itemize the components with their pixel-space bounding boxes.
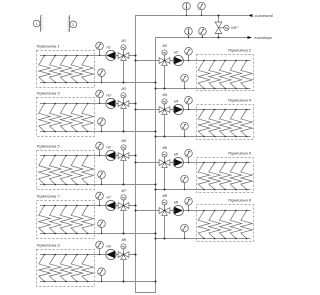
pump Н1	[106, 46, 116, 61]
heating loop coil zone 3.3	[60, 103, 72, 133]
wire valve М8 recirculation stem	[164, 215, 166, 238]
heating loop coil zone 2.2	[209, 60, 221, 90]
thermometer supply zone 1	[96, 42, 104, 56]
svg-text:Н9: Н9	[106, 245, 110, 249]
thermal zone 8 outline	[197, 205, 254, 242]
thermometer supply zone 2	[185, 48, 193, 62]
thermometer return zone 2	[181, 74, 189, 89]
heating loop coil zone 4.3	[220, 109, 232, 138]
pump Н8	[173, 201, 183, 216]
wire return branch zone 5	[40, 184, 156, 186]
thermometer supply zone 6	[185, 150, 193, 164]
heating loop coil zone 6.2	[209, 162, 221, 191]
wire valve М3 recirculation stem	[123, 108, 125, 131]
svg-text:М3: М3	[121, 87, 126, 91]
svg-text:М9: М9	[121, 238, 126, 242]
thermometer supply zone 7	[96, 192, 104, 206]
thermometer return zone 7	[98, 220, 106, 234]
heating loop coil zone 2.3	[220, 60, 232, 90]
heating loop coil zone 7.3	[60, 205, 72, 235]
wire supply branch zone 9	[40, 254, 136, 256]
arrow to boiler	[248, 36, 252, 39]
wire supply branch zone 2	[136, 60, 251, 62]
svg-text:Термозона 4: Термозона 4	[228, 98, 252, 103]
manometer on return main	[199, 28, 207, 39]
wire supply branch zone 6	[136, 162, 251, 164]
pump Н2	[173, 51, 183, 66]
svg-text:Н6: Н6	[174, 153, 178, 157]
thermal zone 5 outline	[37, 151, 95, 190]
heating loop coil zone 5.3	[60, 155, 72, 186]
svg-text:М7: М7	[121, 189, 126, 193]
valve М7 three-way	[118, 189, 129, 211]
wire supply main (riser 1, upper pipe to boiler)	[136, 16, 249, 293]
wire supply branch zone 8	[136, 210, 251, 212]
valve КЗР bypass	[215, 14, 238, 38]
arrow from boiler	[248, 14, 252, 17]
valve М1 three-way	[118, 39, 129, 61]
thermometer supply zone 9	[96, 241, 104, 255]
wire valve М9 recirculation stem	[123, 259, 125, 281]
heating loop coil zone 3.5	[82, 103, 94, 133]
wire return branch zone 4	[156, 136, 251, 138]
heating loop coil zone 8.2	[209, 210, 221, 240]
thermal zone 4 outline	[197, 105, 254, 140]
svg-text:Термозона 2: Термозона 2	[228, 48, 252, 53]
wire valve М6 recirculation stem	[164, 167, 166, 189]
svg-text:М2: М2	[162, 44, 167, 48]
valve М8 three-way	[159, 194, 170, 216]
thermometer supply zone 4	[185, 97, 193, 111]
wire supply branch zone 3	[40, 103, 136, 105]
heating loop coil zone 1.2	[50, 55, 62, 84]
wire return branch zone 8	[156, 238, 251, 240]
thermometer on return main	[185, 28, 193, 39]
heating loop coil zone 7.2	[50, 205, 62, 235]
svg-text:КЗР: КЗР	[231, 26, 238, 30]
wire valve М4 recirculation stem	[164, 114, 166, 136]
svg-text:Н8: Н8	[174, 201, 178, 205]
svg-text:М5: М5	[121, 139, 126, 143]
wall sensor 2	[68, 15, 77, 32]
svg-text:из котельной: из котельной	[254, 14, 273, 19]
heating loop coil zone 5.2	[50, 155, 62, 186]
heating loop coil zone 6.4	[230, 162, 242, 191]
node junctions zone 9	[122, 253, 156, 282]
heating loop coil zone 8.5	[241, 210, 253, 240]
heating loop coil zone 7.5	[82, 205, 94, 235]
svg-text:М4: М4	[162, 93, 167, 97]
heating loop coil zone 2.4	[230, 60, 242, 90]
heating loop coil zone 3.4	[71, 103, 83, 133]
thermometer on supply main	[183, 2, 191, 16]
thermometer return zone 9	[98, 268, 106, 282]
wire return branch zone 6	[156, 189, 251, 191]
wire valve М1 recirculation stem	[123, 60, 125, 82]
node junctions zone 4	[134, 108, 165, 137]
heating loop coil zone 4.5	[241, 109, 253, 138]
svg-text:Н7: Н7	[106, 196, 110, 200]
heating loop coil zone 9.2	[50, 254, 62, 283]
manometer on supply main	[198, 2, 206, 16]
heating loop coil zone 3.1	[39, 103, 51, 133]
wire return branch zone 3	[40, 131, 156, 133]
svg-text:Н5: Н5	[106, 146, 110, 150]
svg-text:Н1: Н1	[106, 46, 110, 50]
pump Н5	[106, 146, 116, 161]
heating loop coil zone 6.3	[220, 162, 232, 191]
svg-text:Термозона 5: Термозона 5	[36, 144, 60, 149]
svg-text:2: 2	[72, 23, 74, 27]
wire return branch zone 9	[40, 281, 156, 283]
thermometer return zone 6	[181, 175, 189, 190]
wire supply branch zone 1	[40, 55, 136, 57]
wire supply branch zone 7	[40, 205, 136, 207]
heating loop coil zone 2.1	[198, 60, 210, 90]
valve М5 three-way	[118, 139, 129, 161]
svg-text:Термозона 3: Термозона 3	[36, 91, 60, 96]
heating loop coil zone 3.2	[50, 103, 62, 133]
heating loop coil zone 9.5	[82, 254, 94, 283]
node junctions zone 1	[122, 54, 156, 83]
heating loop coil zone 4.4	[230, 109, 242, 138]
heating loop coil zone 7.4	[71, 205, 83, 235]
wire supply branch zone 4	[136, 109, 251, 111]
thermometer return zone 3	[98, 118, 106, 132]
heating loop coil zone 9.4	[71, 254, 83, 283]
pump Н6	[173, 153, 183, 168]
thermometer supply zone 3	[96, 90, 104, 104]
thermometer return zone 4	[181, 122, 189, 137]
thermometer supply zone 8	[185, 198, 193, 212]
heating loop coil zone 2.5	[241, 60, 253, 90]
svg-text:Н2: Н2	[174, 51, 178, 55]
wire return branch zone 2	[156, 88, 251, 90]
pump Н7	[106, 196, 116, 211]
pump Н3	[106, 94, 116, 109]
heating loop coil zone 8.3	[220, 210, 232, 240]
svg-text:М1: М1	[121, 39, 126, 43]
heating loop coil zone 9.1	[39, 254, 51, 283]
heating loop coil zone 4.1	[198, 109, 210, 138]
wire return branch zone 1	[40, 82, 156, 84]
thermometer return zone 5	[98, 171, 106, 185]
heating loop coil zone 1.1	[39, 55, 51, 84]
thermal zone 1 outline	[37, 51, 95, 88]
node junctions zone 5	[122, 154, 156, 185]
node junctions zone 6	[134, 161, 165, 190]
pump Н9	[106, 245, 116, 260]
heating loop coil zone 7.1	[39, 205, 51, 235]
valve М3 three-way	[118, 87, 129, 109]
thermometer return zone 1	[98, 69, 106, 83]
svg-text:Н3: Н3	[106, 94, 110, 98]
heating loop coil zone 5.4	[71, 155, 83, 186]
valve М2 three-way	[159, 44, 170, 66]
wire valve М2 recirculation stem	[164, 65, 166, 88]
heating loop coil zone 1.3	[60, 55, 72, 84]
thermal zone 3 outline	[37, 98, 95, 137]
wire valve М7 recirculation stem	[123, 210, 125, 233]
heating loop coil zone 1.5	[82, 55, 94, 84]
thermal zone 7 outline	[37, 201, 95, 239]
heating loop coil zone 8.1	[198, 210, 210, 240]
svg-text:Н4: Н4	[174, 100, 178, 104]
thermal zone 6 outline	[197, 158, 254, 193]
svg-text:в котельную: в котельную	[254, 36, 272, 41]
heating loop coil zone 5.1	[39, 155, 51, 186]
svg-text:М6: М6	[162, 146, 167, 150]
heating loop coil zone 6.5	[241, 162, 253, 191]
pump Н4	[173, 100, 183, 115]
node junctions zone 2	[134, 59, 165, 89]
heating loop coil zone 9.3	[60, 254, 72, 283]
valve М6 three-way	[159, 146, 170, 168]
thermal zone 9 outline	[37, 250, 95, 287]
valve М9 three-way	[118, 238, 129, 260]
valve М4 three-way	[159, 93, 170, 115]
heating loop coil zone 4.2	[209, 109, 221, 138]
heating loop coil zone 8.4	[230, 210, 242, 240]
node junctions zone 7	[122, 204, 156, 234]
thermal zone 2 outline	[197, 55, 254, 91]
svg-text:Термозона 6: Термозона 6	[228, 151, 252, 156]
svg-text:1: 1	[36, 22, 38, 26]
svg-text:Термозона 1: Термозона 1	[36, 44, 59, 49]
node junctions zone 3	[122, 102, 156, 132]
wire supply branch zone 5	[40, 155, 136, 157]
thermometer return zone 8	[181, 224, 189, 239]
node junctions zone 8	[134, 209, 165, 239]
svg-text:Термозона 8: Термозона 8	[228, 198, 252, 203]
thermometer supply zone 5	[96, 142, 104, 156]
heating loop coil zone 5.5	[82, 155, 94, 186]
heating loop coil zone 1.4	[71, 55, 83, 84]
wall sensor 1	[33, 15, 42, 32]
heating loop coil zone 6.1	[198, 162, 210, 191]
wire valve М5 recirculation stem	[123, 160, 125, 184]
svg-text:Термозона 7: Термозона 7	[36, 194, 60, 199]
svg-text:М8: М8	[162, 194, 167, 198]
wire return branch zone 7	[40, 233, 156, 235]
svg-text:Термозона 9: Термозона 9	[36, 243, 60, 248]
